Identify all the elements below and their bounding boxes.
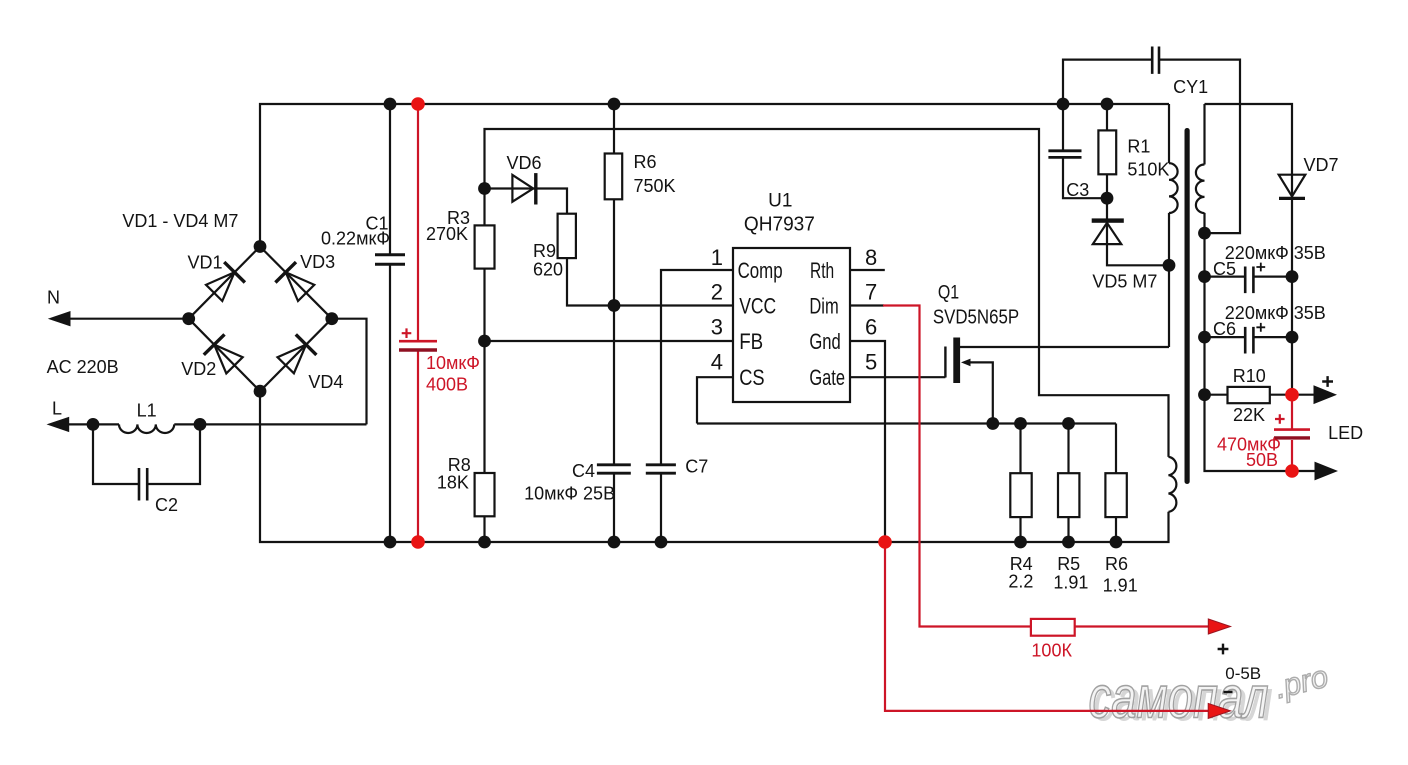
transistor Q1 gate plate [944,347,946,378]
label 18K [437,473,469,493]
label C4 [572,461,595,481]
wire Q1 source drop [968,362,993,423]
pin number 5 [865,350,877,375]
arrow 0-5V minus output [1208,703,1230,718]
svg-text:R6: R6 [1105,554,1128,574]
svg-text:C4: C4 [572,461,595,481]
label 220uF 35V C6 [1225,303,1326,323]
label VD4 [308,372,343,392]
svg-text:270K: 270K [426,224,468,244]
resistor R6 750K [605,154,623,200]
wire LED plus lead [1292,394,1314,396]
resistor R8 [475,473,495,516]
capacitor C bulk 10uF 400V red lead [417,104,419,542]
svg-text:CS: CS [739,365,764,390]
label 620 [533,260,563,280]
pin number 7 [865,280,877,305]
watermark samopal [1089,665,1274,734]
wire secondary top to VD7 [1205,104,1293,198]
label C1 [365,214,388,234]
watermark pro [1271,658,1331,705]
svg-text:SVD5N65P: SVD5N65P [933,307,1019,329]
inductor L1 [119,424,174,433]
wire Gnd pin 6 to ground rail [850,341,885,542]
label VD1 - VD4 M7 [122,211,238,231]
label L [52,399,62,419]
resistor R1 [1098,130,1116,174]
label L1 [137,401,157,421]
label 1.91 R5 [1053,573,1088,593]
label VD3 [300,252,335,272]
diode VD3 [275,262,314,301]
arrow 0-5V plus output [1208,619,1230,634]
wire LED minus lead [1292,470,1315,472]
svg-text:1.91: 1.91 [1103,576,1138,596]
svg-text:510K: 510K [1127,160,1169,180]
svg-text:Comp: Comp [738,258,783,283]
svg-text:5: 5 [865,350,877,375]
svg-text:400В: 400В [426,375,468,395]
wire primary bottom lead [1168,213,1170,347]
svg-text:R9: R9 [533,241,556,261]
svg-text:C3: C3 [1066,180,1089,200]
wire secondary bottom run [1205,213,1293,471]
capacitor C3 [1048,151,1081,158]
wire VD6 cathode to R9 [537,189,567,214]
resistor R9 [558,214,576,258]
wire top rail (+310V bus) [260,104,1169,247]
label VD6 [506,153,541,173]
wire C5 left lead [1205,276,1246,278]
svg-text:VD1: VD1 [187,253,222,273]
wire C1 top lead [389,104,391,255]
svg-text:1.91: 1.91 [1053,573,1088,593]
svg-text:Dim: Dim [809,294,838,319]
wire C6 left lead [1205,336,1246,338]
resistor R10 [1228,387,1270,403]
wire R1 bottom lead [1106,174,1108,198]
label R9 [533,241,556,261]
wire C6 right lead [1253,336,1292,338]
label VD5 M7 [1092,272,1157,292]
svg-text:Gnd: Gnd [809,329,840,354]
pin name Gate [809,365,845,390]
wire primary top lead [1168,104,1170,163]
polarity plus C6 [1256,323,1265,332]
arrow N terminal [48,311,71,326]
capacitor C out 470uF leads red [1291,395,1293,471]
wire CS pin 4 jog [697,377,733,423]
transistor Q1 source arrow [961,359,971,367]
capacitor C out polarity plus [1275,414,1285,424]
label 22K [1233,405,1265,425]
IC U1 QH7937 body [733,248,850,402]
label R5 [1057,554,1080,574]
wire R9 bottom to VCC node [567,258,614,305]
transformer primary winding [1169,163,1178,213]
label 10uF red [426,353,480,373]
label Q1 [938,283,959,304]
pin name VCC [739,294,776,319]
diode VD1 [206,262,245,301]
label 0-5V [1225,664,1261,683]
wire R10 right lead [1270,394,1292,396]
wire R3 bottom to FB node [483,269,485,341]
wire R6 sense top lead [1115,424,1117,474]
capacitor C6 [1245,327,1253,354]
wire C3 bottom to VD5 node [1063,157,1107,198]
wire CY1 right lead [1159,60,1240,234]
wire R3 top lead [483,189,485,226]
transformer aux winding [1169,457,1177,512]
label CY1 [1173,77,1208,97]
wire FB line to pin 3 [485,340,734,342]
arrow LED minus terminal [1315,462,1339,481]
svg-text:22K: 22K [1233,405,1265,425]
svg-text:18K: 18K [437,473,469,493]
capacitor C7 [646,465,676,473]
pin name Comp [738,258,783,283]
wire R1 top lead [1106,104,1108,130]
svg-text:VD7: VD7 [1303,155,1338,175]
wire L input line [64,423,119,425]
label VD1 [187,253,222,273]
wire VD7 cathode run [1291,200,1293,395]
wire R4 top lead [1019,424,1021,474]
resistor R6 sense [1105,473,1126,517]
wire 100K to plus output [1075,625,1209,627]
svg-text:2.2: 2.2 [1008,572,1033,592]
svg-text:620: 620 [533,260,563,280]
capacitor C4 [597,465,631,473]
wire VCC node to C4 [613,306,615,465]
label R3 [447,208,470,228]
wire bridge right node to L line [332,319,367,425]
pin number 4 [711,350,723,375]
label R10 [1233,366,1266,386]
svg-text:3: 3 [711,315,723,340]
svg-text:R1: R1 [1127,137,1150,157]
resistor 100K red [1031,619,1075,636]
svg-text:C7: C7 [685,457,708,477]
label LED [1328,423,1363,443]
label VD2 [181,359,216,379]
resistor R5 [1058,473,1079,517]
wire VD5 anode to primary [1107,198,1169,265]
wire R10 left lead [1205,394,1228,396]
label 750K [634,176,676,196]
svg-text:8: 8 [865,245,877,270]
wire VCC line to pin 2 [614,304,733,306]
wire C2 left branch [93,424,139,484]
label R8 [448,455,471,475]
wire R8 top lead [483,341,485,473]
capacitor C out 470uF plates [1274,430,1310,438]
wire ground rail [260,391,1169,542]
svg-text:LED: LED [1328,423,1363,443]
label R1 [1127,137,1150,157]
svg-text:220мкФ 35В: 220мкФ 35В [1225,243,1326,263]
svg-text:VD6: VD6 [506,153,541,173]
svg-text:50В: 50В [1246,450,1278,470]
wire bridge edge left-bottom [189,319,260,392]
pin number 3 [711,315,723,340]
wire C7 bottom lead [660,473,662,542]
svg-text:10мкФ: 10мкФ [426,353,480,373]
label C6 [1213,319,1236,339]
pin name Gnd [809,329,840,354]
svg-text:L1: L1 [137,401,157,421]
wire C2 right branch [147,424,200,484]
wire Comp pin 1 to C7 [661,270,733,465]
svg-text:CY1: CY1 [1173,77,1208,97]
arrow LED plus terminal [1314,385,1338,404]
capacitor C1 [375,255,405,265]
label 220uF 35V C5 [1225,243,1326,263]
pin number 6 [865,315,877,340]
capacitor C2 [139,468,147,501]
label 270K [426,224,468,244]
label 470uF red [1217,435,1281,455]
wire R4 bottom lead [1019,517,1021,542]
arrow L terminal [47,417,70,432]
wire Rth pin 8 stub [850,269,885,271]
pin name Dim [809,294,838,319]
wire C3 top lead [1062,104,1064,151]
pin number 8 [865,245,877,270]
svg-text:C2: C2 [155,495,178,515]
resistor R4 [1010,473,1031,517]
svg-text:N: N [47,288,60,308]
polarity plus LED output [1322,376,1333,387]
wire ground red line to minus output [885,542,1208,711]
wire secondary top lead [1203,104,1205,165]
svg-text:6: 6 [865,315,877,340]
wire inner VCC rail from VD6 node to transformer aux [485,129,1169,457]
wire R6 top lead [613,104,615,154]
svg-text:Q1: Q1 [938,283,959,304]
label R6 [634,152,657,172]
svg-text:2: 2 [711,280,723,305]
capacitor C5 [1245,267,1253,294]
svg-text:U1: U1 [768,191,792,212]
resistor R3 [475,225,495,268]
capacitor C bulk polarity plus [402,328,412,338]
diode VD6 [512,173,535,204]
wire Dim red line to 100K [883,306,1031,627]
label QH7937 [744,214,815,236]
label SVD5N65P [933,307,1019,329]
wire Dim pin 7 stub [850,304,884,306]
label 1.91 R6 [1103,576,1138,596]
label C5 [1213,259,1236,279]
label C3 [1066,180,1089,200]
wire CY1 left lead [1063,60,1152,104]
label 50V red [1246,450,1278,470]
wire R8 bottom lead [483,516,485,542]
wire R6 sense bottom lead [1115,517,1117,542]
wire Q1 drain to primary [960,346,1169,348]
label C7 [685,457,708,477]
svg-text:VD5 M7: VD5 M7 [1092,272,1157,292]
svg-text:R6: R6 [634,152,657,172]
svg-text:100К: 100К [1031,641,1072,661]
svg-text:0-5В: 0-5В [1225,664,1261,683]
svg-text:VCC: VCC [739,294,776,319]
junction dots black [87,98,1299,549]
svg-text:0.22мкФ: 0.22мкФ [321,229,390,249]
label 2.2 [1008,572,1033,592]
svg-text:VD1 - VD4 M7: VD1 - VD4 M7 [122,211,238,231]
svg-text:4: 4 [711,350,723,375]
polarity plus C5 [1256,263,1265,272]
wire C4 bottom lead [613,473,615,542]
wire VD6 anode lead [485,187,538,189]
wire C1 bottom lead [389,264,391,542]
svg-text:VD2: VD2 [181,359,216,379]
wire R5 top lead [1067,424,1069,474]
svg-text:L: L [52,399,62,419]
svg-text:R10: R10 [1233,366,1266,386]
svg-text:VD3: VD3 [300,252,335,272]
wire R5 bottom lead [1067,517,1069,542]
svg-text:FB: FB [739,329,763,354]
label C2 [155,495,178,515]
svg-text:AC 220В: AC 220В [47,357,119,377]
label N [47,288,60,308]
svg-text:VD4: VD4 [308,372,343,392]
pin name Rth [810,258,834,283]
svg-text:R5: R5 [1057,554,1080,574]
transformer secondary winding [1196,165,1205,214]
junction dots red [411,97,1299,549]
label 400V red [426,375,468,395]
wire Gate pin 5 to Q1 [850,376,945,378]
wire R6 bottom to VCC node [613,199,615,305]
wire bridge edge bottom-right [260,319,332,392]
wire N input line [64,318,189,320]
svg-text:Gate: Gate [809,365,845,390]
wire current-sense line [697,422,1116,424]
label 510K [1127,160,1169,180]
svg-text:Rth: Rth [810,258,834,283]
svg-text:QH7937: QH7937 [744,214,815,236]
svg-text:220мкФ 35В: 220мкФ 35В [1225,303,1326,323]
wire bridge edge top-right [260,247,332,319]
wire bridge edge left-top [189,247,260,319]
capacitor C bulk plates [399,341,437,350]
diode VD2 [204,334,243,373]
label 0.22uF [321,229,390,249]
label R4 [1010,554,1033,574]
pin number 1 [711,245,723,270]
transistor Q1 channel bar [953,338,960,384]
svg-text:10мкФ 25В: 10мкФ 25В [524,484,615,504]
diode VD4 [278,334,317,373]
capacitor CY1 [1152,47,1159,74]
polarity plus 0-5V output [1218,644,1229,655]
label R6 sense [1105,554,1128,574]
label U1 [768,191,792,212]
pin number 2 [711,280,723,305]
diode VD5 [1092,218,1124,244]
svg-text:750K: 750K [634,176,676,196]
diode VD7 [1279,175,1306,199]
pin name FB [739,329,763,354]
svg-text:7: 7 [865,280,877,305]
wire L1 right to bridge [174,423,366,425]
label VD7 [1303,155,1338,175]
label 10uF 25V [524,484,615,504]
label AC 220V [47,357,119,377]
pin name CS [739,365,764,390]
transformer core [1185,128,1190,484]
svg-text:1: 1 [711,245,723,270]
wire C5 right lead [1253,276,1292,278]
polarity minus 0-5V output [1224,691,1233,693]
label 100K red [1031,641,1072,661]
